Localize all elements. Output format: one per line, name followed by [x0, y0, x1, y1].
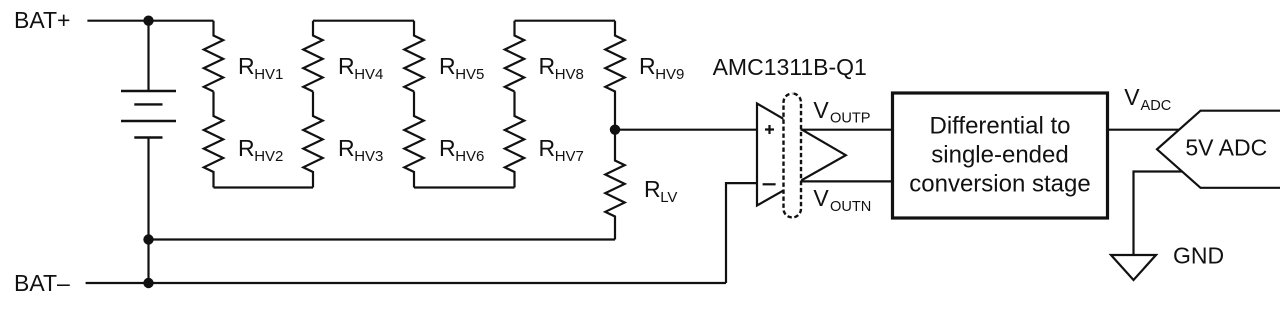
- label RHV1: [238, 53, 283, 83]
- node divider tap: [610, 125, 620, 135]
- label RLV: [644, 176, 677, 206]
- wire divider tap to amp + input: [615, 129, 757, 131]
- svg-text:5V ADC: 5V ADC: [1185, 134, 1267, 160]
- junction dot BAT+ / battery top: [143, 16, 153, 26]
- wire top bracket RHV8-RHV9: [515, 20, 616, 22]
- svg-text:ADC: ADC: [1141, 98, 1172, 114]
- svg-text:V: V: [1124, 84, 1140, 110]
- wire bottom bracket RHV2-RHV3: [214, 186, 314, 188]
- svg-text:V: V: [813, 185, 829, 211]
- label RHV6: [439, 135, 484, 165]
- svg-text:HV4: HV4: [354, 66, 383, 83]
- op-amp - input marker: [763, 183, 776, 185]
- label RHV3: [338, 135, 383, 165]
- junction dot battery low rail: [143, 234, 153, 244]
- svg-text:HV8: HV8: [555, 66, 584, 83]
- svg-text:R: R: [238, 53, 255, 79]
- svg-text:OUTN: OUTN: [830, 199, 871, 215]
- svg-text:R: R: [644, 176, 661, 202]
- resistor RHV1: [204, 21, 223, 92]
- svg-text:R: R: [338, 135, 355, 161]
- svg-text:R: R: [539, 53, 556, 79]
- svg-text:R: R: [338, 53, 355, 79]
- resistor RHV9: [605, 21, 624, 130]
- svg-text:HV9: HV9: [655, 66, 684, 83]
- label RHV9: [639, 53, 684, 83]
- svg-text:OUTP: OUTP: [830, 111, 871, 127]
- svg-text:Differential to: Differential to: [930, 113, 1071, 140]
- resistor RLV: [605, 130, 624, 240]
- svg-text:R: R: [539, 135, 556, 161]
- svg-text:AMC1311B-Q1: AMC1311B-Q1: [713, 54, 867, 80]
- wire ADC to ground: [1134, 172, 1183, 256]
- ground GND symbol: [1111, 255, 1156, 280]
- block U2 differential to single-ended conversion stage: [893, 93, 1108, 218]
- resistor RHV8: [505, 21, 524, 92]
- wire VOUTN: [801, 180, 893, 182]
- svg-text:HV1: HV1: [254, 66, 283, 83]
- wire top bracket RHV4-RHV5: [313, 20, 414, 22]
- resistor RHV7: [505, 92, 524, 188]
- wire VADC box to ADC: [1108, 129, 1180, 131]
- resistor RHV4: [303, 21, 322, 92]
- svg-text:HV5: HV5: [455, 66, 484, 83]
- isolation barrier dashed capsule: [784, 94, 802, 218]
- wire BAT- up to amp: [726, 183, 757, 283]
- svg-text:LV: LV: [660, 189, 677, 206]
- svg-text:R: R: [439, 135, 456, 161]
- resistor RHV5: [404, 21, 423, 92]
- label RHV5: [439, 53, 484, 83]
- wire bottom bracket RHV6-RHV7: [414, 186, 515, 188]
- label VADC: [1124, 84, 1171, 114]
- svg-text:conversion stage: conversion stage: [909, 170, 1090, 197]
- label RHV8: [539, 53, 584, 83]
- svg-text:HV7: HV7: [555, 148, 584, 165]
- svg-text:R: R: [238, 135, 255, 161]
- op-amp + input marker: [765, 125, 774, 134]
- junction dot BAT-: [143, 278, 153, 288]
- label VOUTP: [813, 97, 870, 127]
- svg-text:HV3: HV3: [354, 148, 383, 165]
- svg-text:V: V: [813, 97, 829, 123]
- resistor RHV2: [204, 92, 223, 188]
- resistor RHV3: [303, 92, 322, 188]
- svg-text:HV2: HV2: [254, 148, 283, 165]
- battery B1: [121, 21, 176, 283]
- wire BAT- rail: [86, 282, 726, 284]
- resistor RHV6: [404, 92, 423, 188]
- svg-text:single-ended: single-ended: [931, 142, 1068, 169]
- svg-text:GND: GND: [1173, 243, 1224, 269]
- svg-text:BAT–: BAT–: [14, 270, 70, 296]
- label RHV2: [238, 135, 283, 165]
- label RHV7: [539, 135, 584, 165]
- label differential to single-ended conversion stage: [909, 113, 1090, 198]
- svg-text:BAT+: BAT+: [14, 7, 70, 33]
- wire VOUTP: [801, 129, 893, 131]
- label RHV4: [338, 53, 383, 83]
- svg-text:HV6: HV6: [455, 148, 484, 165]
- wire BAT+ rail: [87, 20, 213, 22]
- label VOUTN: [813, 185, 871, 215]
- block 5V ADC banner: [1157, 111, 1280, 188]
- op-amp U1 AMC1311B-Q1 triangle: [757, 104, 846, 206]
- svg-text:R: R: [639, 53, 656, 79]
- svg-text:R: R: [439, 53, 456, 79]
- wire RLV bottom to battery: [149, 238, 616, 240]
